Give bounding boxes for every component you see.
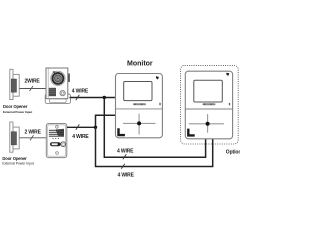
svg-text:2 WIRE: 2 WIRE: [25, 129, 42, 135]
dashed option outline: [181, 65, 239, 144]
monitor M2 (option): [185, 71, 232, 139]
wire 2WIRE (bottom): [20, 137, 47, 139]
svg-text:4 WIRE: 4 WIRE: [72, 88, 89, 94]
door station DS2 (audio, bottom): [46, 124, 67, 158]
wire 4WIRE F (audio station to junction): [67, 126, 96, 128]
svg-text:4 WIRE: 4 WIRE: [117, 149, 134, 155]
svg-text:2WIRE: 2WIRE: [25, 78, 41, 84]
junction node J2: [94, 126, 97, 129]
svg-text:Option: Option: [226, 149, 240, 155]
wire outer-U (monitor1 to monitor2): [96, 115, 213, 166]
wire-break slash (top 2WIRE): [30, 86, 34, 91]
wire-break slash on wire F: [76, 124, 80, 129]
svg-text:Door Opener: Door Opener: [2, 156, 27, 161]
svg-text:4 WIRE: 4 WIRE: [118, 173, 135, 179]
door opener DO1 (top-left): [10, 69, 19, 99]
wire 2WIRE (top): [20, 88, 46, 90]
wire-break slash (inner U): [123, 154, 127, 159]
wire-break slash (bottom 2WIRE): [30, 135, 34, 140]
monitor M1: [116, 74, 163, 138]
svg-text:Door Opener: Door Opener: [3, 104, 28, 109]
svg-text:Monitor: Monitor: [127, 60, 153, 67]
svg-text:External Power Input: External Power Input: [2, 162, 34, 166]
wire-break slash on wire A: [76, 95, 80, 100]
door opener DO2 (bottom-left): [10, 122, 19, 152]
svg-text:External Power Input: External Power Input: [3, 110, 32, 114]
wire 4WIRE A (video station to monitor1): [70, 97, 116, 99]
door station DS1 (video, top): [45, 68, 70, 103]
wire-break slash (outer U): [121, 164, 125, 169]
svg-text:4 WIRE: 4 WIRE: [72, 134, 89, 140]
junction node J1: [103, 96, 106, 99]
wire inner-U (junction J1 to monitor2): [104, 98, 205, 158]
